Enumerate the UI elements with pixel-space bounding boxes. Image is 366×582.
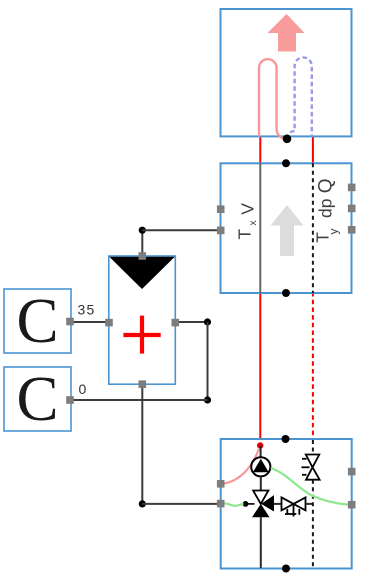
svg-text:C: C <box>16 286 58 356</box>
radiator return tube dashed <box>287 57 312 138</box>
connector const2 output <box>66 396 74 404</box>
hydraulic top node <box>282 435 290 443</box>
green control curve right <box>271 468 348 505</box>
pipe check valve to return <box>306 503 313 505</box>
return dashed inside top <box>312 440 314 455</box>
constant block const2 letter C <box>16 364 58 434</box>
value label 0 <box>79 381 87 397</box>
sensor label T_x <box>235 220 260 240</box>
connector ctrl right <box>172 319 180 327</box>
node corner upper right <box>204 318 211 325</box>
sensor box <box>221 163 352 293</box>
red return dashed line middle segment <box>312 292 314 440</box>
sensor label V <box>238 203 258 215</box>
red supply end node <box>257 442 263 448</box>
valve inlet node <box>243 501 255 507</box>
radiator heat arrow <box>267 14 304 52</box>
pump P1 <box>251 457 270 476</box>
wire ctrl right to corner <box>175 321 208 323</box>
hydraulic connector right lower <box>348 501 356 509</box>
node corner bottom <box>139 500 146 507</box>
connector ctrl bottom <box>139 380 147 388</box>
constant block const1 letter C <box>16 286 58 356</box>
wire bottom corner to hydraulic box <box>142 503 220 505</box>
wire top corner to sensor box <box>142 229 220 231</box>
controller block ctrl body <box>109 256 176 384</box>
value label 35 <box>78 302 96 318</box>
red supply line top segment <box>259 136 261 164</box>
svg-text:y: y <box>327 229 341 235</box>
wire const2 to corner <box>70 399 208 401</box>
svg-text:x: x <box>247 220 259 226</box>
sensor connector left lower <box>217 227 225 235</box>
sensor top node <box>282 159 290 167</box>
sensor connector right 1 <box>348 184 356 192</box>
hydraulic box <box>221 439 352 569</box>
connector ctrl left <box>105 319 113 327</box>
svg-text:Q: Q <box>316 179 337 194</box>
sensor label dp <box>316 199 336 218</box>
svg-text:35: 35 <box>78 302 96 318</box>
radiator supply tube <box>259 59 287 139</box>
sensor bottom node <box>282 289 290 297</box>
pipe dot to pump <box>260 446 262 459</box>
red supply line middle segment <box>259 292 261 446</box>
node corner lower right <box>204 396 211 403</box>
svg-text:T: T <box>235 229 255 240</box>
svg-text:dp: dp <box>316 199 336 218</box>
sensor connector left upper <box>217 205 225 213</box>
svg-text:V: V <box>238 203 258 215</box>
pink expansion curve <box>225 449 259 484</box>
svg-text:C: C <box>16 364 58 434</box>
sensor return pipe dashed <box>312 163 314 293</box>
svg-text:0: 0 <box>79 381 87 397</box>
wire const1 to ctrl <box>70 321 109 323</box>
connector const1 output <box>66 318 74 326</box>
sensor connector right 3 <box>348 226 356 234</box>
sensor supply pipe gray <box>259 163 261 293</box>
wire vertical right <box>207 322 209 400</box>
wire ctrl top up <box>141 230 143 256</box>
pipe pump to valve <box>260 476 262 491</box>
sensor label Q <box>316 179 337 194</box>
radiator bottom node <box>283 135 292 144</box>
hydraulic connector left upper <box>217 480 225 488</box>
sensor label T_y <box>313 229 341 243</box>
constant block const2 (0) box <box>4 367 71 431</box>
wire ctrl bottom down <box>141 384 143 504</box>
sensor connector right 2 <box>348 205 356 213</box>
return dashed inside bottom <box>312 480 314 568</box>
red return dashed line top segment <box>312 136 314 164</box>
hydraulic connector left lower <box>217 500 225 508</box>
controller block ctrl red plus <box>123 316 160 354</box>
check valve V2 <box>282 497 306 516</box>
supply pipe valve to bottom <box>260 517 262 568</box>
sensor flow arrow <box>271 205 304 256</box>
constant block const1 (35 degC) box <box>4 289 71 353</box>
green control squiggle left <box>225 504 244 506</box>
three-way valve V1 <box>252 491 274 518</box>
radiator box <box>221 9 352 136</box>
return valve V3 <box>302 455 320 480</box>
hydraulic bottom node <box>282 565 290 573</box>
controller block ctrl black triangle <box>109 257 175 289</box>
connector ctrl top <box>139 252 147 260</box>
hydraulic connector right upper <box>348 468 356 476</box>
node corner top <box>139 227 146 234</box>
pipe valve to check valve <box>274 503 282 505</box>
